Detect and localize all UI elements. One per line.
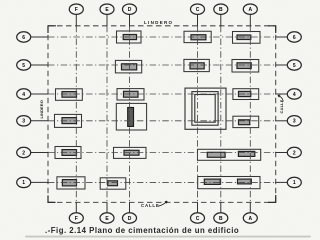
solid stem E bottom	[106, 202, 108, 213]
lindero property border top	[48, 25, 276, 27]
calle border bottom	[48, 201, 276, 203]
solid stem C bottom	[197, 202, 199, 213]
axis bubble B bottom	[214, 213, 228, 223]
column axis E	[106, 26, 108, 203]
solid stem D top	[129, 14, 131, 27]
solid stem row3 left	[30, 120, 48, 122]
solid stem B bottom	[220, 202, 222, 213]
solid stem row6 right	[275, 36, 287, 38]
axis bubble 4 right	[287, 89, 301, 99]
footing D5	[114, 147, 147, 158]
footing D2	[115, 60, 141, 73]
footing A2	[232, 60, 259, 73]
lindero property border left	[47, 26, 49, 203]
corner bracket top-left	[48, 26, 56, 33]
axis bubble F top	[69, 4, 83, 14]
solid stem row2 left	[30, 152, 48, 154]
axis bubble B top	[214, 4, 228, 14]
axis bubble C top	[191, 4, 205, 14]
axis bubble F bottom	[69, 213, 83, 223]
footing D3	[117, 89, 144, 100]
footing C1	[184, 31, 211, 42]
footing F4	[55, 114, 82, 127]
solid stem row5 right	[275, 64, 287, 66]
axis bubble E bottom	[100, 213, 114, 223]
axis bubble E top	[100, 4, 114, 14]
combined footing B-A row 6	[198, 177, 260, 189]
column axis C	[197, 26, 199, 203]
corner bracket bottom-right	[268, 195, 276, 202]
axis bubble A top	[243, 4, 257, 14]
calle border right	[275, 26, 277, 203]
wall footing D4 square	[116, 103, 146, 130]
footing A1	[233, 32, 261, 44]
axis bubble 4 left	[17, 89, 31, 99]
solid stem C top	[197, 14, 199, 27]
axis bubble 1 left	[17, 177, 31, 187]
row axis 6	[48, 181, 276, 183]
axis bubble A bottom	[243, 213, 257, 223]
solid stem row2 right	[275, 152, 287, 154]
row axis 1	[48, 36, 276, 38]
footing D1	[117, 31, 142, 43]
corner bracket bottom-left	[48, 195, 56, 202]
column axis D	[129, 26, 131, 203]
axis bubble 6 right	[287, 32, 301, 42]
column axis A	[249, 26, 251, 203]
footing F5	[55, 147, 81, 159]
axis bubble 3 left	[17, 116, 31, 126]
column axis F	[75, 26, 77, 203]
solid stem F top	[75, 14, 77, 27]
solid stem row6 left	[30, 36, 48, 38]
solid stem F bottom	[75, 202, 77, 213]
axis bubble D bottom	[123, 213, 137, 223]
footing A4	[233, 116, 259, 127]
column axis B	[220, 26, 222, 203]
solid stem row1 left	[30, 181, 48, 183]
row axis 3	[48, 93, 276, 95]
solid stem A bottom	[249, 202, 251, 213]
footing F6	[57, 177, 85, 189]
solid stem E top	[106, 14, 108, 27]
solid stem row3 right	[275, 120, 287, 122]
row axis 4	[48, 120, 276, 122]
corner bracket top-right	[268, 26, 276, 33]
combined footing C-B rows 3-4	[185, 88, 226, 129]
solid stem row4 right	[275, 93, 287, 95]
arrow above CALLE right	[278, 95, 283, 101]
axis bubble 1 right	[287, 177, 301, 187]
footing A3	[233, 89, 259, 100]
axis bubble 5 right	[287, 60, 301, 70]
row axis 5	[48, 152, 276, 154]
solid stem row1 right	[275, 181, 287, 183]
row axis 2	[48, 64, 276, 66]
axis bubble 2 left	[17, 147, 31, 157]
solid stem row4 left	[30, 93, 48, 95]
arrow after CALLE bottom	[159, 201, 168, 206]
axis bubble D top	[123, 4, 137, 14]
footing F3	[56, 89, 83, 101]
axis bubble C bottom	[191, 213, 205, 223]
axis bubble 5 left	[17, 60, 31, 70]
bottom scan shadow	[25, 236, 311, 238]
solid stem A top	[249, 14, 251, 27]
axis bubble 3 right	[287, 116, 301, 126]
footing C2	[184, 59, 209, 71]
paper noise overlay	[0, 0, 1, 1]
combined footing B-A row 5	[198, 149, 261, 160]
solid stem B top	[220, 14, 222, 27]
solid stem D bottom	[129, 202, 131, 213]
footing E6	[100, 178, 126, 189]
axis bubble 6 left	[17, 32, 31, 42]
axis bubble 2 right	[287, 147, 301, 157]
solid stem row5 left	[30, 64, 48, 66]
